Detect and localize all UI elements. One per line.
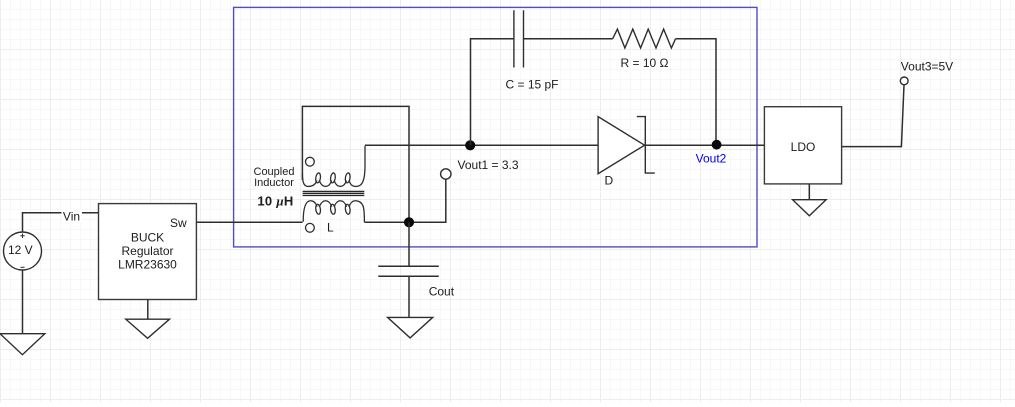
- svg-text:Vout2: Vout2: [696, 151, 727, 165]
- node A junction dot: [404, 217, 414, 227]
- wire resistor to Vout2: [676, 39, 716, 140]
- svg-text:L: L: [327, 221, 334, 235]
- main output wire to diode: [365, 144, 598, 146]
- wire buck to ground: [147, 300, 149, 320]
- wire cap to resistor: [524, 38, 613, 40]
- svg-text:Regulator: Regulator: [121, 244, 173, 258]
- svg-text:Inductor: Inductor: [254, 177, 294, 189]
- svg-text:BUCK: BUCK: [131, 231, 164, 245]
- voltage source V1 12V: [4, 232, 42, 270]
- terminal circle Vout3: [900, 77, 908, 85]
- svg-text:LDO: LDO: [791, 140, 816, 154]
- svg-text:12 V: 12 V: [8, 243, 33, 257]
- wire diode to LDO: [645, 144, 764, 146]
- coupled inductor T1 : secondary (top coil): [302, 146, 365, 187]
- node Vout1 junction dot: [465, 140, 475, 150]
- svg-text:D: D: [605, 174, 614, 188]
- terminal circle (bottom coil): [306, 223, 315, 232]
- svg-text:Vout1 = 3.3: Vout1 = 3.3: [458, 158, 519, 172]
- node Vin label: [62, 209, 83, 222]
- svg-text:10 μH: 10 μH: [257, 193, 293, 208]
- wire Sw to inductor: [196, 221, 302, 223]
- svg-text:Vin: Vin: [63, 210, 80, 224]
- coupled inductor T1 : core: [303, 191, 365, 195]
- ground (source): [0, 334, 45, 355]
- svg-text:C = 15 pF: C = 15 pF: [505, 77, 558, 91]
- diode D (zener): [598, 117, 655, 188]
- svg-text:Sw: Sw: [170, 216, 187, 230]
- wire node A down to Cout: [408, 222, 410, 266]
- resistor R zigzag: [613, 29, 676, 48]
- buck regulator U1: [99, 204, 197, 300]
- probe terminal circle Vout1: [441, 169, 451, 179]
- ground (LDO): [793, 200, 827, 216]
- container box (blue): [234, 7, 757, 247]
- wire probe to node A: [414, 179, 446, 222]
- node Vout2 junction dot: [712, 140, 722, 150]
- capacitor Cout: [378, 266, 439, 317]
- ground (Cout): [388, 317, 433, 338]
- svg-text:R = 10 Ω: R = 10 Ω: [621, 56, 669, 70]
- regulator LDO: [764, 107, 841, 184]
- svg-text:Cout: Cout: [429, 284, 455, 298]
- feedback wire up from Vout1: [471, 39, 514, 146]
- ground (buck): [126, 319, 170, 338]
- wire source to ground: [22, 270, 24, 334]
- terminal circle (top coil): [306, 157, 315, 166]
- wire LDO to ground: [808, 184, 810, 200]
- svg-text:LMR23630: LMR23630: [118, 258, 177, 272]
- wire hook: inductor top terminal to node A: [302, 106, 409, 222]
- coupled inductor T1 : primary L (bottom coil): [303, 201, 364, 223]
- capacitor C feedback plates: [514, 10, 524, 67]
- wire Vin horizontal: [23, 213, 99, 232]
- wire primary to node A: [364, 221, 409, 223]
- wire LDO output to Vout3: [842, 85, 904, 147]
- svg-text:Vout3=5V: Vout3=5V: [901, 59, 953, 73]
